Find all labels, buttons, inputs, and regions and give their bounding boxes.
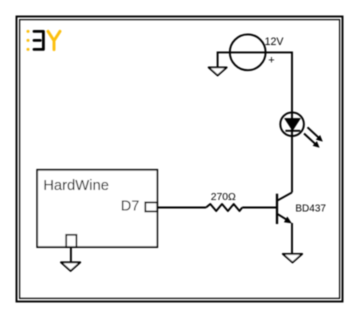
logo dot 1 — [27, 30, 30, 33]
svg-text:+: + — [268, 54, 274, 66]
ground (emitter) — [283, 254, 302, 263]
logo Y — [48, 31, 60, 49]
transistor collector diagonal — [278, 192, 292, 200]
pin D7 square — [145, 202, 157, 211]
LED arrow 1 — [308, 127, 323, 141]
resistor R1 zigzag — [206, 204, 242, 211]
wire: source left to ground — [218, 52, 230, 66]
ground (source) — [209, 67, 227, 75]
svg-text:12V: 12V — [265, 36, 285, 48]
LED D1 circle — [280, 112, 304, 136]
HardWine box U1 — [37, 170, 157, 247]
wire: through source circle to right corner and down — [230, 52, 292, 192]
wire: resistor to base — [242, 207, 276, 209]
logo reversed-E — [34, 31, 43, 49]
transistor Q1 base bar — [276, 194, 278, 224]
svg-text:HardWine: HardWine — [43, 178, 109, 194]
wire: box pin down — [70, 247, 72, 262]
LED triangle — [285, 119, 300, 131]
logo dot 2 — [27, 39, 30, 42]
transistor emitter arrowhead — [284, 217, 292, 224]
logo dot 3 — [27, 48, 30, 51]
ground (box) — [61, 262, 80, 271]
LED cathode bar — [285, 130, 300, 132]
pin GND square — [66, 235, 76, 247]
LED arrow 2 — [304, 134, 320, 148]
svg-text:BD437: BD437 — [295, 204, 326, 215]
voltage source V1 circle — [230, 34, 266, 70]
svg-text:D7: D7 — [121, 198, 140, 214]
transistor emitter diagonal — [278, 214, 288, 220]
svg-text:270Ω: 270Ω — [211, 192, 236, 203]
border frame inner — [20, 20, 340, 299]
wire: D7 pin to resistor — [157, 207, 206, 209]
wire: emitter down — [291, 223, 293, 253]
